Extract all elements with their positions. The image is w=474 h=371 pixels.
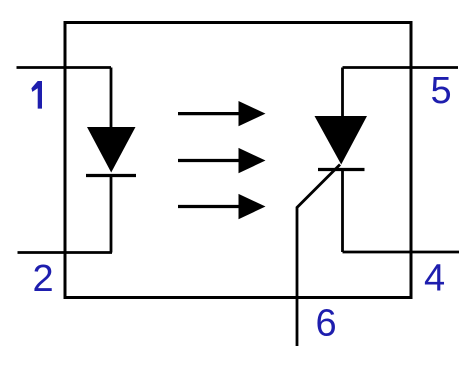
light arrow 3 <box>178 194 266 219</box>
photo-triac Q1 triangle <box>315 116 368 165</box>
wire LED anode lead <box>110 68 113 130</box>
light arrow 1 <box>178 101 266 126</box>
photo-triac Q1 bar <box>318 168 365 171</box>
svg-text:6: 6 <box>316 303 337 345</box>
wire LED cathode lead <box>110 176 113 253</box>
wire pin 2 <box>18 251 113 254</box>
svg-text:5: 5 <box>431 70 452 112</box>
LED D1 triangle <box>87 127 136 173</box>
wire pin 4 <box>343 251 460 254</box>
wire gate pin 6 <box>297 165 340 347</box>
light arrow 2 <box>178 148 266 173</box>
wire pin 1 <box>17 66 112 69</box>
pin label 1 <box>31 81 42 109</box>
wire photo-triac bottom lead <box>341 170 344 253</box>
svg-text:4: 4 <box>424 258 445 300</box>
package outline <box>65 23 411 298</box>
wire photo-triac top lead <box>341 68 344 119</box>
LED D1 cathode bar <box>86 174 136 177</box>
wire pin 5 <box>343 66 459 69</box>
svg-text:2: 2 <box>33 258 54 300</box>
